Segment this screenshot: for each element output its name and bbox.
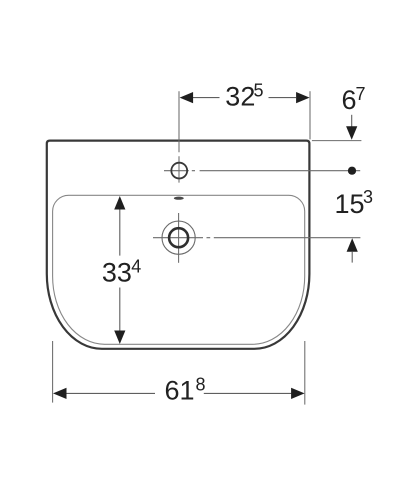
dimension 33.4 up arrow bbox=[114, 196, 125, 210]
dimension 33.4 down arrow bbox=[114, 331, 125, 345]
drain outer circle bbox=[162, 221, 195, 254]
reference dot bbox=[348, 167, 356, 175]
drain leader line bbox=[214, 237, 361, 239]
dimension 61.8 extension line left bbox=[52, 341, 54, 403]
drain centerline vertical bbox=[178, 213, 180, 263]
svg-text:8: 8 bbox=[196, 375, 206, 395]
svg-text:5: 5 bbox=[254, 81, 264, 101]
faucet hole centerline vertical bbox=[178, 91, 180, 182]
basin outer outline bbox=[47, 141, 310, 349]
dimension 61.8 right arrow bbox=[291, 388, 305, 399]
dimension 33.4 line bbox=[119, 209, 121, 331]
dimension 61.8 extension line right bbox=[304, 341, 306, 405]
faucet hole centerline horizontal bbox=[164, 170, 195, 172]
svg-text:3: 3 bbox=[363, 187, 373, 207]
faucet hole bbox=[171, 163, 187, 179]
dimension 15.3 up arrow bbox=[347, 238, 358, 252]
basin inner rim outline bbox=[53, 195, 305, 344]
dimension 32.5 line bbox=[193, 97, 296, 99]
dimension 61.8 left arrow bbox=[53, 388, 67, 399]
svg-text:15: 15 bbox=[335, 189, 365, 219]
svg-text:33: 33 bbox=[102, 258, 132, 288]
dimension 6.7 stem bbox=[351, 115, 353, 128]
svg-text:4: 4 bbox=[131, 257, 141, 277]
svg-text:32: 32 bbox=[225, 82, 255, 112]
dimension 15.3 stem bbox=[351, 252, 353, 263]
overflow slot bbox=[174, 197, 184, 200]
top edge reference line bbox=[312, 140, 362, 142]
drain centerline horizontal bbox=[153, 237, 210, 239]
svg-text:6: 6 bbox=[342, 85, 357, 115]
drain inner circle bbox=[169, 228, 188, 247]
dimension 6.7 down arrow bbox=[346, 126, 357, 140]
dimension 61.8 line bbox=[67, 392, 292, 394]
svg-text:61: 61 bbox=[165, 375, 195, 405]
faucet leader line to reference dot bbox=[200, 170, 361, 172]
dimension 32.5 extension line right bbox=[309, 91, 311, 139]
svg-text:7: 7 bbox=[356, 84, 366, 104]
dimension 32.5 left arrow bbox=[180, 92, 194, 103]
dimension 32.5 right arrow bbox=[296, 92, 310, 103]
